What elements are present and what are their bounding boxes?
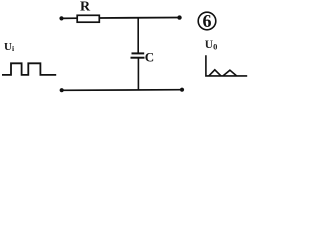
wire bottom rail xyxy=(61,89,182,92)
circled 6 marker xyxy=(198,12,216,30)
wire: capacitor bottom lead to bottom wire xyxy=(137,58,139,90)
output waveform U0 triangle wave xyxy=(209,70,221,76)
node dot: input terminal top-left xyxy=(59,16,63,20)
svg-text:R: R xyxy=(80,0,91,15)
node dot: top-right output terminal xyxy=(177,15,181,19)
svg-text:Ui: Ui xyxy=(4,41,14,53)
wire top: input terminal to resistor xyxy=(61,17,78,19)
output waveform axis xyxy=(206,55,247,76)
input waveform Ui square wave xyxy=(2,63,56,75)
wire: capacitor top lead from top wire junction xyxy=(137,18,139,54)
wire top: resistor to output node xyxy=(99,17,180,20)
node dot: bottom-right terminal xyxy=(180,88,184,92)
svg-text:6: 6 xyxy=(203,11,212,31)
node dot: bottom-left terminal xyxy=(60,88,64,92)
svg-text:C: C xyxy=(145,50,154,65)
resistor R body xyxy=(77,15,99,22)
capacitor C plates xyxy=(132,52,145,54)
svg-text:U0: U0 xyxy=(205,39,218,52)
